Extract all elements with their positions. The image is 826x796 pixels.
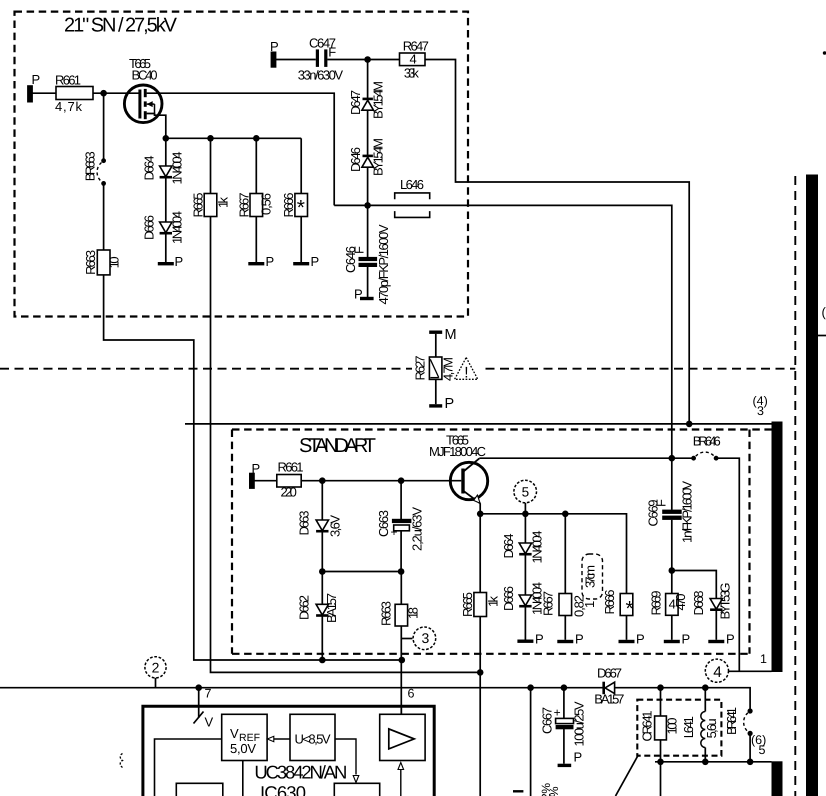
wire: BR641 bottom to bus <box>749 736 751 762</box>
ground P (R669) <box>664 640 680 643</box>
svg-text:220: 220 <box>281 485 297 500</box>
wire: T665 drain to corner and down to L646 line <box>147 93 335 205</box>
svg-text:100u/25V: 100u/25V <box>572 701 587 746</box>
svg-text:D662: D662 <box>297 595 312 620</box>
wire: BR646 to right drop down <box>716 458 739 671</box>
resistor R661 220 (STANDART) <box>277 475 301 488</box>
svg-text:1N4004: 1N4004 <box>530 531 545 564</box>
resistor R647 4/33k <box>400 53 426 66</box>
wire: R666 column <box>300 138 302 193</box>
svg-text:R661: R661 <box>55 73 81 88</box>
svg-text:M: M <box>445 327 457 343</box>
wire: to D668 <box>672 571 717 599</box>
squiggle marks left bottom <box>120 754 122 768</box>
svg-text:1N4004: 1N4004 <box>170 152 185 185</box>
svg-text:2: 2 <box>152 660 160 676</box>
svg-text:470p/FKP/1600V: 470p/FKP/1600V <box>376 224 391 304</box>
resistor R661 4,7k (top box) <box>56 87 93 100</box>
wire: C667 column <box>563 688 565 719</box>
svg-text:U<8,5V: U<8,5V <box>295 732 331 747</box>
wire: line to connector 3 (4) <box>185 423 772 425</box>
wire: R667 column <box>255 138 257 193</box>
resistor R667 0,82 (STANDART) <box>559 594 572 616</box>
svg-text:R667: R667 <box>236 193 251 218</box>
svg-text:D646: D646 <box>348 147 363 172</box>
svg-text:R663: R663 <box>83 250 98 275</box>
svg-text:6: 6 <box>408 687 415 701</box>
svg-text:470: 470 <box>673 594 688 611</box>
svg-text:D664: D664 <box>501 534 516 559</box>
svg-text:1k: 1k <box>486 596 501 608</box>
svg-text:1: 1 <box>582 601 597 608</box>
svg-text:4,7k: 4,7k <box>55 99 83 114</box>
svg-text:BY154M: BY154M <box>371 138 386 176</box>
wire: P to R661 <box>32 92 56 94</box>
wire: R667 0,82 column <box>564 514 566 594</box>
ground P (D666 STANDART) <box>517 640 533 643</box>
wire: D664/D666 column <box>165 138 167 166</box>
transistor T665 MJF18004C <box>450 458 487 503</box>
svg-text:BR646: BR646 <box>693 433 721 448</box>
wire: emitter column long drop <box>479 503 481 592</box>
IC internal: U<8,5V right drop arrow <box>335 739 356 775</box>
resistor R663 10 (top box) <box>97 250 110 275</box>
inductor L646 <box>395 193 430 199</box>
wire: top box lower rail <box>166 137 301 139</box>
svg-text:P: P <box>445 396 455 412</box>
svg-text:UC3842N/AN: UC3842N/AN <box>254 762 347 783</box>
wire: stub to connector 3 <box>401 638 412 640</box>
wire: right edge stub <box>818 335 826 337</box>
capacitor C663 2,2u/63V <box>392 519 412 523</box>
svg-text:R627: R627 <box>413 356 428 381</box>
svg-text:R667: R667 <box>541 591 556 616</box>
node P (STANDART R661) <box>250 474 254 489</box>
svg-text:P: P <box>726 632 735 647</box>
svg-text:D666: D666 <box>501 586 516 611</box>
wire: connector 2 stem <box>155 678 157 688</box>
wire: D663/D662 column <box>321 481 323 520</box>
diode D662 BA157 <box>316 604 328 615</box>
board bar bottom right <box>772 761 783 796</box>
svg-text:MJF18004C: MJF18004C <box>429 444 486 459</box>
capacitor C669 1n/FKP/1600V <box>662 510 682 514</box>
node P (left input) <box>28 86 32 102</box>
ground P (C646) <box>360 297 374 300</box>
board edge black bars <box>772 175 819 796</box>
wire: C669 column <box>671 458 673 510</box>
svg-text:R661: R661 <box>278 460 304 475</box>
svg-text:5: 5 <box>522 485 530 500</box>
ground P (D666 top box) <box>158 262 174 265</box>
svg-text:IC630: IC630 <box>260 782 306 796</box>
diode D664 1N4004 (STANDART) <box>519 543 531 554</box>
svg-text:BYT53G: BYT53G <box>718 583 733 620</box>
svg-text:BY154M: BY154M <box>371 81 386 119</box>
svg-text:F: F <box>654 499 669 507</box>
svg-text:1k: 1k <box>216 197 231 209</box>
wire: T665 source to lower rail <box>147 114 166 139</box>
svg-text:4: 4 <box>713 664 722 681</box>
resistor R663 18 (STANDART) <box>395 604 408 626</box>
svg-text:D666: D666 <box>142 215 157 240</box>
svg-text:*: * <box>626 598 634 621</box>
svg-text:3,6V: 3,6V <box>328 515 343 537</box>
diode D667 BA157 <box>602 682 605 695</box>
wire: link rail D663-C663 <box>322 571 401 573</box>
svg-text:P: P <box>266 254 275 269</box>
sub-box VREF <box>222 714 267 760</box>
connector circle 5 <box>514 480 537 503</box>
resistor R666 * (top box) <box>295 194 308 217</box>
wire: D664/D666 column STANDART <box>524 514 526 543</box>
ground P (C667) <box>558 764 572 767</box>
wire: L646 line to C669 column <box>334 205 672 458</box>
svg-text:L646: L646 <box>400 177 424 192</box>
board bar right of STANDART <box>772 422 783 673</box>
capacitor C647 33n/630V <box>316 49 319 67</box>
node P (R627) <box>429 404 442 407</box>
wire: lower right bus to board edge <box>655 761 772 763</box>
wire: R663 18 column down to pin 6 <box>400 572 402 605</box>
zener D663 3,6V <box>316 520 328 531</box>
diode D668 BYT53G <box>710 599 722 610</box>
sub-box lower left <box>176 783 223 796</box>
resistor R667 0,56 (top box) <box>250 194 263 217</box>
ground P (R667 top box) <box>248 262 264 265</box>
svg-text:18: 18 <box>406 607 421 619</box>
capacitor C667 100u/25V <box>556 718 574 723</box>
svg-text:5,6u: 5,6u <box>704 718 719 738</box>
svg-text:F: F <box>328 44 336 59</box>
wire: tolerance note drop <box>530 688 532 796</box>
svg-text:5,0V: 5,0V <box>230 741 256 756</box>
svg-text:100: 100 <box>665 718 680 735</box>
jumper BR663 <box>97 158 106 186</box>
wire: connector 5 stem <box>524 503 526 514</box>
svg-text:4,7M: 4,7M <box>441 357 456 381</box>
svg-text:10: 10 <box>107 256 122 268</box>
svg-text:P: P <box>574 750 583 765</box>
wire: T665 collector line to BR646 <box>479 457 693 459</box>
svg-text:1: 1 <box>760 652 767 666</box>
wire: STANDART base rail <box>253 480 461 482</box>
wire: emitter rail in STANDART <box>480 514 626 594</box>
wire: R666 * column <box>626 616 628 640</box>
IC internal: U<8,5V to VREF arrow <box>271 738 290 740</box>
svg-text:33n/630V: 33n/630V <box>298 68 344 83</box>
connector circle 4 <box>705 659 728 682</box>
wire: R661 to T665 gate <box>93 92 139 94</box>
svg-text:STANDART: STANDART <box>299 435 376 457</box>
right page dashed line <box>794 176 796 796</box>
svg-text:4: 4 <box>410 52 417 67</box>
svg-text:C663: C663 <box>376 510 391 537</box>
node M (R627) <box>429 331 442 334</box>
ground P (R667 STANDART) <box>557 640 573 643</box>
IC internal: pin6 wire into driver <box>400 706 402 714</box>
svg-text:P: P <box>354 287 363 302</box>
svg-text:*: * <box>297 197 305 220</box>
resistor R665 1k (top box) <box>204 194 217 217</box>
page split dashed line <box>0 368 412 370</box>
VDR R627 4,7M <box>429 357 442 379</box>
svg-text:P: P <box>535 632 544 647</box>
ground P (D668) <box>708 640 724 643</box>
resistor R669 4/470 <box>666 594 679 616</box>
wire: R665 column down to emitter rail junction <box>210 138 212 193</box>
svg-text:D667: D667 <box>597 665 622 680</box>
wire: R627 column <box>435 334 437 357</box>
svg-text:P: P <box>270 39 279 54</box>
transistor T665 BC40 <box>124 85 162 123</box>
sub-box lower mid <box>334 783 379 796</box>
small part below page edge <box>513 790 523 792</box>
wire: pointer line from CR641 box <box>616 756 639 796</box>
diode D666 1N4004 (STANDART) <box>519 595 531 606</box>
wire: R663 down, over and down to gate-drive rail <box>104 275 402 660</box>
svg-text:P: P <box>32 72 41 87</box>
svg-text:R666: R666 <box>602 590 617 615</box>
svg-text:F: F <box>352 246 367 254</box>
svg-text:V: V <box>205 715 214 730</box>
ground P (R666 STANDART) <box>619 640 635 643</box>
svg-text:P: P <box>682 632 691 647</box>
svg-text:R665: R665 <box>460 592 475 617</box>
svg-text:0%: 0% <box>547 786 561 796</box>
sub-box U<8,5V <box>290 714 335 760</box>
sub-box driver <box>380 714 425 760</box>
wire: D647/D646 column <box>367 60 369 99</box>
svg-text:V: V <box>230 726 239 741</box>
svg-text:+: + <box>391 525 398 539</box>
svg-text:D663: D663 <box>297 511 312 536</box>
svg-text:BR641: BR641 <box>724 707 739 735</box>
ground P (R666 top box) <box>293 262 309 265</box>
resistor R666 * (STANDART) <box>620 594 633 616</box>
wire: CR641 column <box>660 688 662 716</box>
svg-text:3: 3 <box>757 404 764 418</box>
IC internal: VREF bottom line <box>242 761 244 796</box>
svg-text:2,2u/63V: 2,2u/63V <box>410 507 425 551</box>
diode D666 1N4004 (top box) <box>160 222 172 233</box>
diode D664 1N4004 (top box) <box>160 166 172 177</box>
wire: measuring point slash <box>194 712 204 724</box>
wire: pin 7 drop <box>198 688 200 718</box>
wire: main bottom bus <box>0 687 603 689</box>
svg-text:5: 5 <box>759 743 766 757</box>
wire: C663 column <box>400 481 402 519</box>
wire: C646 column <box>367 205 369 257</box>
svg-text:P: P <box>252 461 261 476</box>
svg-text:C667: C667 <box>540 707 555 734</box>
IC internal: driver bottom arrow <box>400 770 402 796</box>
svg-text:D664: D664 <box>142 156 157 181</box>
svg-text:D647: D647 <box>348 90 363 115</box>
svg-text:!: ! <box>464 365 468 382</box>
wire: BR663 column down from node <box>103 93 105 158</box>
svg-text:D668: D668 <box>691 591 706 616</box>
svg-text:33k: 33k <box>404 65 420 80</box>
wire: connector 4 to board edge <box>729 670 772 672</box>
note box 1/37cm <box>582 554 603 599</box>
capacitor C646 470p/FKP/1600V <box>359 257 378 261</box>
connector circle 3 <box>413 627 436 650</box>
svg-text:CR641: CR641 <box>640 711 655 742</box>
svg-text:(: ( <box>822 305 826 320</box>
IC box UC3842N/AN <box>143 706 434 796</box>
warning triangle <box>455 358 478 380</box>
inductor L641 5,6u <box>701 712 706 748</box>
svg-text:37cm: 37cm <box>583 565 598 588</box>
frame: CR641/L641 dashed box <box>637 700 721 756</box>
svg-text:BA157: BA157 <box>594 692 624 707</box>
frame: top dashed box 21" SN <box>15 12 469 317</box>
svg-text:BC40: BC40 <box>132 68 158 83</box>
frame: STANDART dashed box <box>232 430 772 654</box>
svg-text:R666: R666 <box>281 193 296 218</box>
diode D647 BY154M <box>363 98 373 101</box>
svg-text:BR663: BR663 <box>83 151 98 181</box>
svg-text:0,56: 0,56 <box>259 193 274 215</box>
svg-text:1n/FKP/1600V: 1n/FKP/1600V <box>680 481 695 543</box>
wire: R647 over and down to line 3 <box>425 60 689 424</box>
svg-text:P: P <box>311 254 320 269</box>
svg-text:1N4004: 1N4004 <box>170 211 185 244</box>
svg-text:3: 3 <box>422 630 430 646</box>
IC internal: VREF left line <box>155 739 222 796</box>
svg-text:7: 7 <box>205 687 212 701</box>
wire: P node to C647 <box>276 59 316 61</box>
jumper BR646 <box>691 452 718 460</box>
board bar outer right <box>806 175 818 796</box>
svg-text:L641: L641 <box>681 716 696 738</box>
svg-text:BA157: BA157 <box>324 593 339 623</box>
svg-text:+: + <box>554 706 561 720</box>
svg-text:R669: R669 <box>649 591 664 616</box>
node P (C647) <box>271 52 275 67</box>
diode D646 BY154M <box>363 155 373 158</box>
resistor R665 1k (STANDART) <box>474 593 487 617</box>
jumper BR641 <box>744 708 753 736</box>
svg-text:P: P <box>575 632 584 647</box>
svg-text:21" SN / 27,5kV: 21" SN / 27,5kV <box>64 15 178 37</box>
svg-text:R665: R665 <box>191 193 206 218</box>
wire: L641 column <box>704 688 706 712</box>
svg-text:R663: R663 <box>379 601 394 626</box>
wire: C647 to R647 <box>327 59 399 61</box>
driver triangle <box>389 729 414 749</box>
svg-text:P: P <box>175 254 184 269</box>
svg-text:P: P <box>636 632 645 647</box>
connector circle 2 <box>145 657 166 678</box>
resistor CR641 100 <box>655 716 667 740</box>
